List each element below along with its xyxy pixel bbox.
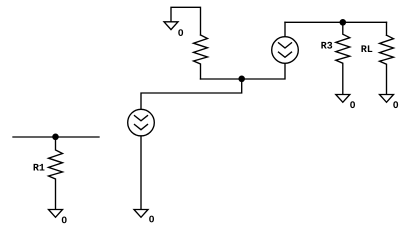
ground (0) under RL xyxy=(380,95,394,103)
resistor RL (vertical, zigzag body) xyxy=(380,35,394,94)
resistor R1 (vertical, zigzag body) xyxy=(49,137,63,209)
wire: top-right net corner down to RL xyxy=(386,22,388,35)
label 0 of ground under R1 xyxy=(62,217,67,224)
label 0 of ground under I1 xyxy=(149,216,154,223)
node: junction dot on left net xyxy=(52,134,59,141)
label 0 of ground under R3 xyxy=(350,101,355,108)
label 0 of ground under RL xyxy=(393,101,398,108)
label RL xyxy=(361,45,372,52)
wire: current source I1 bottom to ground xyxy=(140,136,142,209)
resistor (unlabeled, top middle, zigzag body) xyxy=(194,35,208,79)
wire: center junction down-left to current source I1 top xyxy=(141,79,242,109)
wire: resistor bottom to center junction xyxy=(201,78,242,80)
current source I2 (top right) xyxy=(272,37,299,64)
ground (0) under current source I1 xyxy=(134,210,148,218)
node: junction dot on top-right net xyxy=(340,19,347,26)
wire: top-right horizontal net xyxy=(285,21,387,23)
current source I1 (middle) xyxy=(128,109,155,136)
ground (0) under R3 xyxy=(336,95,350,103)
wire: center junction right to current source I2 bottom xyxy=(242,64,285,79)
ground (0) under R1 xyxy=(49,210,63,218)
resistor R3 (vertical, zigzag body) xyxy=(336,22,350,94)
wire: left horizontal net xyxy=(13,136,99,138)
node: center junction dot xyxy=(238,76,245,83)
wire: top middle ground to resistor top xyxy=(171,7,201,35)
label R3 xyxy=(321,42,332,49)
wire: current source I2 top to top-right net xyxy=(284,22,286,36)
label 0 of top middle ground xyxy=(178,29,183,36)
ground (0) top middle xyxy=(164,22,178,30)
label R1 xyxy=(34,164,45,171)
